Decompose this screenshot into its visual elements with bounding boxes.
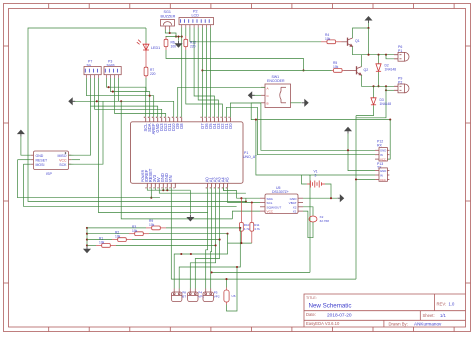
resistor R5 10k xyxy=(332,69,334,71)
wire RTC GND to arrow xyxy=(303,197,337,199)
wire R7 bottom into bundle xyxy=(145,78,147,92)
junction emitter rail xyxy=(367,54,369,56)
wire rail x386 down xyxy=(356,86,386,118)
wire riser x310 up to P13 IN run xyxy=(309,175,311,272)
MCU P1 UNO body xyxy=(131,122,244,184)
wire battery left up to P13 GND run xyxy=(302,175,307,184)
junction SCL pullup xyxy=(251,201,253,203)
junction P6 pin2 jog xyxy=(385,54,387,56)
wire ladder row4 xyxy=(87,244,96,246)
svg-text:New Schematic: New Schematic xyxy=(309,303,352,310)
wire ISP GND to VCC arrow xyxy=(21,137,31,156)
resistor R2 10k ladder xyxy=(112,239,118,241)
ground flag near R6 xyxy=(176,41,182,47)
svg-text:10k: 10k xyxy=(333,65,339,69)
svg-text:3: 3 xyxy=(315,174,317,178)
wire LCD pin2 to R12 xyxy=(185,28,187,37)
resistor R12 220 xyxy=(185,36,187,39)
junction D2 top xyxy=(377,54,379,56)
connector P7 xyxy=(84,67,101,75)
svg-text:ANKurmanov: ANKurmanov xyxy=(414,322,442,327)
connector P12 xyxy=(375,148,389,161)
svg-text:Date:: Date: xyxy=(306,312,316,317)
svg-text:VIN: VIN xyxy=(168,175,173,182)
transistor Q2 xyxy=(344,66,362,75)
wire VCC arrow stem xyxy=(368,23,370,28)
svg-text:REV:: REV: xyxy=(437,302,447,307)
wire A1 branch rail xyxy=(212,271,310,273)
svg-text:VCC: VCC xyxy=(267,210,274,214)
wire buzzer pins to net xyxy=(165,30,176,37)
wire P3 pin2 to MCU SDA xyxy=(111,78,150,117)
wire P6 pin2 jog xyxy=(386,55,394,59)
wire bottom rail from VIN to riser xyxy=(171,278,356,280)
junction ladder a xyxy=(86,227,88,229)
wire RTC VCC from row4 xyxy=(232,211,260,219)
junction gnd run a xyxy=(162,189,164,191)
svg-text:4.7k: 4.7k xyxy=(244,227,250,231)
wire P13 IN run from encoder net xyxy=(256,120,375,175)
svg-text:4.7k: 4.7k xyxy=(254,227,260,231)
wire D1 riser to P12 IN xyxy=(226,107,375,154)
resistor R10 4.7k xyxy=(240,198,242,222)
svg-text:10k: 10k xyxy=(99,241,105,245)
wire Q1 collector to VCC xyxy=(353,28,369,38)
wire to ground arrow below MCU xyxy=(189,190,191,214)
svg-text:X1: X1 xyxy=(293,210,297,214)
wire gnd stub near R6 xyxy=(178,37,180,41)
resistor R11 4.7k xyxy=(251,203,253,223)
junction U6 tap xyxy=(225,278,227,280)
wire P7 pin4 down to bottom row3 xyxy=(99,78,208,213)
svg-text:B: B xyxy=(267,101,269,105)
VCC arrow above P12 run xyxy=(345,128,351,134)
svg-text:SCK: SCK xyxy=(59,163,67,167)
svg-text:Q2: Q2 xyxy=(364,68,369,72)
svg-text:1/1: 1/1 xyxy=(440,313,446,318)
wire ladder rail vertical xyxy=(86,228,88,246)
junction bundle c xyxy=(149,95,151,97)
svg-text:A5: A5 xyxy=(225,177,230,183)
junction reset row xyxy=(150,197,152,199)
svg-text:ENCODER: ENCODER xyxy=(267,79,285,83)
svg-text:GND: GND xyxy=(380,149,386,153)
wire Q1 emitter run to P6 xyxy=(353,47,395,55)
net flag arrow encoder B right xyxy=(302,100,308,106)
wire riser col121 to bottom row4 xyxy=(121,101,232,219)
wire riser x310 tap xyxy=(309,175,311,176)
junction VCC stem on run xyxy=(347,149,349,151)
wire GND collect run xyxy=(147,188,190,190)
wire D0 riser to P12 GND xyxy=(230,103,375,150)
junction A2 row4 xyxy=(215,244,217,246)
wire ISP MOSI stub xyxy=(23,163,30,165)
wire VIN column down xyxy=(170,188,172,279)
wire A2 column junction row4 to P4 pin1 xyxy=(190,188,215,289)
svg-text:D0: D0 xyxy=(228,123,233,129)
wire ISP MISO riser xyxy=(74,106,91,155)
wire R12 bottom to MCU D3 xyxy=(186,50,223,117)
svg-text:RESET: RESET xyxy=(36,159,49,163)
junction ladder b xyxy=(86,233,88,235)
wire Q2 emitter run to P9 xyxy=(362,75,395,86)
MCU bottom pin labels xyxy=(144,168,229,182)
resistor R7 220 xyxy=(145,52,147,67)
svg-text:BT: BT xyxy=(182,294,186,298)
net flag arrow RTC GND xyxy=(337,195,343,201)
junction LCD pin6 R5 run xyxy=(201,69,203,71)
junction ladder c xyxy=(86,239,88,241)
component U6 xyxy=(224,288,229,305)
junction stair a xyxy=(180,253,182,255)
wire P3 pin1 to MCU SCL xyxy=(107,78,146,117)
junction P9 jog xyxy=(385,89,387,91)
junction battery gnd xyxy=(330,197,332,199)
svg-text:10k: 10k xyxy=(115,235,121,239)
MCU bottom pin stubs xyxy=(145,183,227,188)
border row tick marks sides xyxy=(4,46,471,283)
wire LCD pin3 to R4 run xyxy=(189,28,191,42)
wire pullup bottoms rail xyxy=(228,242,252,244)
svg-text:POWER: POWER xyxy=(141,169,145,182)
junction ladder d xyxy=(86,244,88,246)
junction D2 bottom rail xyxy=(385,85,387,87)
svg-text:32.768: 32.768 xyxy=(320,219,330,223)
connector P13 xyxy=(375,168,389,181)
svg-text:RX: RX xyxy=(377,144,383,148)
wire P3 pin4 down to row101 xyxy=(118,78,120,101)
svg-text:VP1: VP1 xyxy=(198,294,204,298)
wire row2 drop to P8 pin1 xyxy=(174,234,227,289)
wire P7 pin1 to MCU D12 xyxy=(87,78,154,117)
resistor R1 10k ladder xyxy=(96,244,102,246)
wire ISP SCK stub xyxy=(69,163,74,165)
wire ISP RESET row xyxy=(18,160,99,198)
wire ISP RESET stub xyxy=(18,159,31,161)
svg-text:1N4148: 1N4148 xyxy=(380,102,392,106)
svg-text:100: 100 xyxy=(171,45,177,49)
junction R6 gnd stub xyxy=(177,36,179,38)
wire 3V3 run xyxy=(154,188,156,190)
svg-text:220: 220 xyxy=(190,45,196,49)
wire encoder B to run y120 xyxy=(251,103,390,120)
svg-text:IN: IN xyxy=(380,173,383,177)
battery V1 xyxy=(307,181,325,188)
svg-text:1.0: 1.0 xyxy=(449,302,455,307)
resistor R3 10k ladder xyxy=(129,233,135,235)
wire P7 pin3 to MCU D13 xyxy=(95,78,162,117)
wire long right riser down xyxy=(355,116,357,280)
wire LCD pin8 down to MCU D5 xyxy=(209,28,211,118)
junction D2 bottom xyxy=(377,85,379,87)
connector P3 xyxy=(104,67,121,75)
svg-text:LED1: LED1 xyxy=(151,46,160,50)
wire big loop top-left down to bottom rows xyxy=(28,28,246,202)
svg-text:A: A xyxy=(267,86,270,90)
resistor R6 100 xyxy=(165,36,167,39)
wire ISP VCC stub xyxy=(71,159,80,161)
RTC U5 DS1307 xyxy=(260,194,303,214)
wire LCD pin5 jog to MCU D3 xyxy=(198,28,218,118)
wire 5V run right xyxy=(159,188,246,193)
connector P4 xyxy=(188,289,198,302)
svg-text:10k: 10k xyxy=(149,223,155,227)
svg-text:LCD: LCD xyxy=(192,14,200,18)
resistor R9 10k ladder xyxy=(146,227,152,229)
connector P5 xyxy=(203,289,213,302)
title block xyxy=(304,294,466,327)
wire A3 column junction row3 to P4 pin2 xyxy=(195,188,219,289)
svg-text:VCC: VCC xyxy=(59,159,67,163)
resistor R4 10k xyxy=(321,41,327,43)
wire reset row extension xyxy=(99,197,161,199)
svg-text:10k: 10k xyxy=(325,37,331,41)
junction row2 end xyxy=(226,233,228,235)
svg-text:GND: GND xyxy=(36,154,44,158)
svg-text:C: C xyxy=(267,94,270,98)
svg-text:BUZZER: BUZZER xyxy=(161,15,176,19)
connector P6 xyxy=(394,52,409,61)
buzzer SG1 xyxy=(161,20,175,30)
junction D3 top xyxy=(372,85,374,87)
junction buzzer right pin xyxy=(169,32,171,34)
connector ISP xyxy=(31,151,72,170)
junction gnd run b xyxy=(166,189,168,191)
junction P13 VCC tap xyxy=(355,178,357,180)
svg-text:Drawn By:: Drawn By: xyxy=(389,321,408,326)
junction SDA pullup xyxy=(240,197,242,199)
svg-text:SG1: SG1 xyxy=(164,10,171,14)
svg-text:2018-07-20: 2018-07-20 xyxy=(327,312,352,318)
wire RTC SCL from A5 xyxy=(228,188,260,203)
svg-text:Q1: Q1 xyxy=(355,39,360,43)
junction buzzer to R6 net xyxy=(175,36,177,38)
connector P2 LCD xyxy=(179,18,214,28)
wire ISP MOSI row xyxy=(23,164,236,206)
wire ladder row1 xyxy=(87,227,146,229)
junction R5 run xyxy=(302,69,304,71)
wire U6 top stub xyxy=(226,279,228,287)
wire RTC X2 to crystal xyxy=(303,207,313,216)
VCC arrow top right xyxy=(366,17,372,23)
wire RTC X1 loop to crystal bottom xyxy=(303,211,313,238)
MCU top pin labels xyxy=(143,123,233,135)
svg-text:MOSI: MOSI xyxy=(36,163,45,167)
wire net arrow run to MCU D10 xyxy=(71,101,174,117)
junction run101 b xyxy=(120,100,122,102)
junction run120 end xyxy=(389,119,391,121)
wire battery right down to GND run xyxy=(325,184,331,198)
wire row1 drop to P8 pin2 xyxy=(179,228,240,289)
net flag arrow left xyxy=(69,98,75,104)
wire VCC arrow stem to P12 GND run xyxy=(347,134,349,151)
wire P7 pin2 to MCU GND xyxy=(91,78,158,117)
connector P9 xyxy=(394,84,409,93)
svg-text:Sheet:: Sheet: xyxy=(423,313,435,318)
wire P3 pin3 to MCU D8 xyxy=(115,78,166,117)
ground arrow below MCU xyxy=(188,215,194,221)
svg-text:IN: IN xyxy=(380,153,383,157)
svg-text:TITLE:: TITLE: xyxy=(306,296,317,300)
wire ladder row3 xyxy=(87,239,112,241)
wire LCD pin1 down to MCU D8 xyxy=(181,28,183,118)
wire LCD pin4 jog to MCU D4 xyxy=(194,28,214,118)
svg-text:1N4148: 1N4148 xyxy=(385,68,397,72)
wire R4 run xyxy=(190,41,321,43)
junction bundle a xyxy=(108,86,110,88)
encoder SW1 xyxy=(261,84,291,108)
svg-text:VCC: VCC xyxy=(380,178,386,182)
wire LCD pin6 down to MCU D7 xyxy=(201,28,203,118)
net flag arrow encoder C xyxy=(249,92,255,98)
junction A3 row3 xyxy=(219,239,221,241)
wire encoder C to arrow xyxy=(251,94,262,96)
MCU top pin stubs xyxy=(144,117,231,122)
connector P8 xyxy=(172,289,182,302)
LED LED1 xyxy=(137,40,149,52)
wire R6 top to buzzer net xyxy=(166,35,182,38)
crystal X2 xyxy=(309,216,317,222)
ground arrow ladder rail xyxy=(84,246,90,252)
svg-text:DS1307Z+: DS1307Z+ xyxy=(272,190,289,194)
junction row1 end xyxy=(239,227,241,229)
wire A1 column to P5 pin2 xyxy=(210,188,213,289)
junction LCD pin1 R6 net xyxy=(181,36,183,38)
diode D3 1N4148 xyxy=(373,86,375,98)
wire A0 column to P5 pin1 xyxy=(206,188,208,289)
wire encoder A from MCU D9 xyxy=(178,87,265,117)
junction run101 a xyxy=(96,100,98,102)
wire P13 GND from VCC arrow stem xyxy=(348,150,375,170)
wire GND pin drops xyxy=(162,188,164,190)
wire rail to P12 right pin xyxy=(387,120,390,160)
junction P13 run start xyxy=(255,119,257,121)
svg-text:VP2: VP2 xyxy=(214,294,220,298)
wire U6 bottom loop xyxy=(227,267,238,311)
wire P13 VCC from riser xyxy=(356,178,375,180)
wire ladder row2 xyxy=(87,233,129,235)
svg-text:D8: D8 xyxy=(179,123,184,129)
svg-text:10k: 10k xyxy=(132,229,138,233)
wire ISP MISO stub xyxy=(69,154,74,156)
wire LCD pin7 down to MCU D6 xyxy=(205,28,207,118)
VCC arrow at ISP xyxy=(18,130,24,136)
wire riser to RTC SDA xyxy=(245,198,247,201)
wire R7 column join xyxy=(145,87,147,91)
diode D2 1N4148 xyxy=(378,55,380,64)
wire A4 column up xyxy=(223,188,225,191)
svg-text:MISO: MISO xyxy=(58,154,67,158)
svg-text:ISP: ISP xyxy=(46,172,52,176)
wire R5 run xyxy=(202,69,331,71)
wire R6 bottom run to R5 run xyxy=(166,50,304,70)
wire VCC rail down xyxy=(368,28,370,55)
junction stair b xyxy=(190,253,192,255)
svg-text:U6: U6 xyxy=(232,294,236,298)
svg-text:220: 220 xyxy=(150,72,156,76)
wire Q2 collector riser xyxy=(361,55,363,67)
wire RTC SDA from A4 xyxy=(224,188,260,198)
wire VCC loop to LED1 xyxy=(145,28,147,43)
junction pullup bottom xyxy=(240,242,242,244)
svg-text:EasyEDA V3.6.10: EasyEDA V3.6.10 xyxy=(306,321,340,326)
svg-text:GND: GND xyxy=(380,169,386,173)
junction bundle b xyxy=(112,91,114,93)
junction U6 loop top xyxy=(236,266,238,268)
junction loop row end xyxy=(245,200,247,202)
wire P9 pin2 jog xyxy=(386,89,394,91)
wire ISP SCK riser xyxy=(74,101,104,164)
transistor Q1 xyxy=(342,38,353,47)
junction A1 branch xyxy=(211,271,213,273)
wire MCU RESET stub down xyxy=(150,188,152,198)
junction VCC node xyxy=(367,27,369,29)
